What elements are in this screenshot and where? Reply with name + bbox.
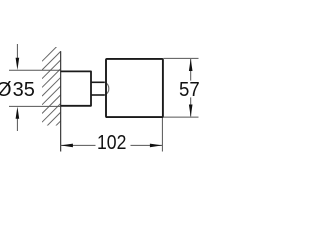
- Ø35 arrow top (pointing down): [16, 44, 18, 60]
- label 57: [179, 79, 200, 102]
- wall face line (also left extension line for 102): [60, 51, 62, 151]
- label 102: [97, 132, 126, 155]
- label Ø35: [0, 79, 12, 102]
- 57 dimension line upper segment: [190, 59, 192, 81]
- 102 dimension line right segment: [131, 144, 163, 146]
- Ø35 arrow bottom (pointing up): [16, 117, 18, 131]
- 57 arrow down: [189, 105, 193, 117]
- 57 dimension line lower segment: [190, 97, 192, 116]
- 57 arrow up: [189, 59, 193, 71]
- 102 dimension line left segment: [60, 144, 95, 146]
- wall hatching: [42, 43, 61, 140]
- neck: [91, 81, 105, 83]
- dimension extension line top (Ø35): [9, 69, 61, 71]
- 102 arrow right: [150, 144, 162, 148]
- dimension extension line bottom (Ø35): [9, 105, 61, 107]
- 57 extension line top: [164, 57, 199, 59]
- 102 right extension line: [161, 118, 163, 152]
- rosette (wall plate): [61, 71, 92, 105]
- 57 extension line bottom: [164, 116, 199, 118]
- 102 arrow left: [61, 144, 73, 148]
- cup cylinder body: [106, 59, 163, 117]
- ball joint arc: [105, 82, 109, 95]
